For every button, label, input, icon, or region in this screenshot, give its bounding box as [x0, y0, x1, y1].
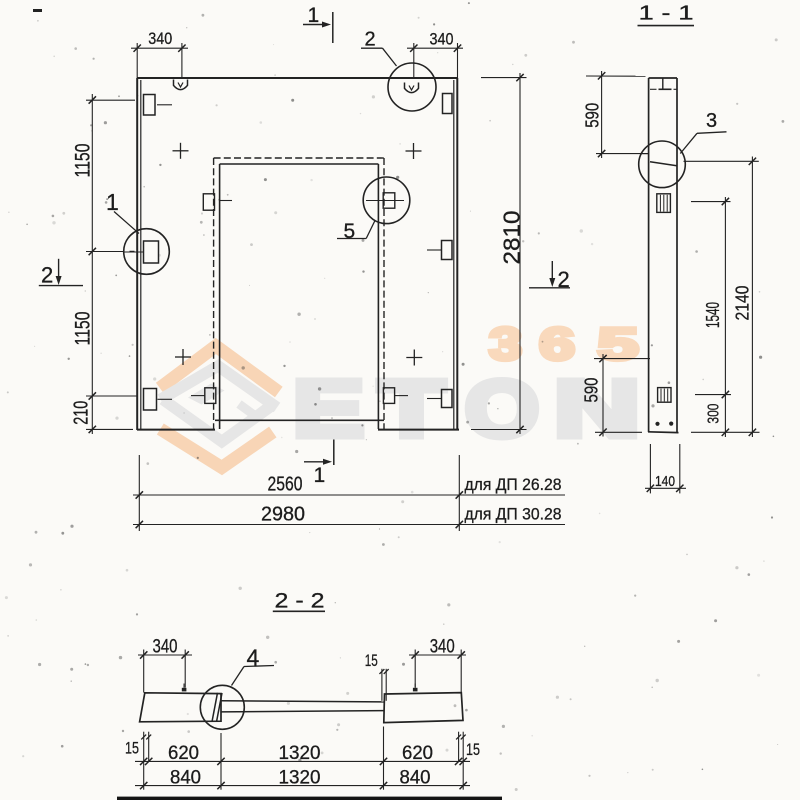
svg-text:1: 1 [106, 189, 119, 215]
svg-text:1: 1 [308, 4, 320, 27]
svg-text:590: 590 [583, 103, 603, 128]
svg-text:340: 340 [430, 30, 454, 49]
svg-text:1150: 1150 [72, 312, 95, 346]
svg-text:O: O [465, 364, 539, 453]
svg-text:3: 3 [706, 110, 717, 132]
svg-text:620: 620 [168, 743, 199, 764]
svg-text:1: 1 [314, 464, 326, 487]
svg-text:1320: 1320 [279, 743, 321, 764]
svg-text:15: 15 [125, 739, 139, 758]
svg-text:2980: 2980 [261, 504, 305, 526]
svg-text:620: 620 [402, 743, 433, 764]
svg-text:E: E [293, 364, 364, 453]
svg-text:300: 300 [705, 404, 722, 424]
svg-text:15: 15 [365, 651, 378, 670]
svg-text:840: 840 [170, 767, 201, 788]
svg-text:2: 2 [41, 263, 53, 288]
svg-text:210: 210 [71, 401, 93, 425]
svg-text:340: 340 [153, 637, 178, 658]
svg-text:N: N [554, 364, 640, 453]
svg-text:1320: 1320 [279, 767, 321, 788]
svg-text:15: 15 [466, 740, 480, 759]
svg-text:5: 5 [344, 220, 356, 243]
svg-text:1540: 1540 [703, 302, 723, 328]
svg-text:для ДП 26.28: для ДП 26.28 [465, 476, 562, 494]
svg-text:T: T [379, 364, 445, 453]
svg-text:1 - 1: 1 - 1 [639, 3, 694, 25]
svg-text:840: 840 [400, 767, 431, 788]
svg-text:2560: 2560 [268, 474, 303, 496]
svg-text:340: 340 [430, 637, 455, 658]
svg-text:590: 590 [581, 378, 601, 403]
svg-text:2 - 2: 2 - 2 [275, 590, 325, 613]
svg-text:3: 3 [489, 319, 522, 370]
svg-text:2140: 2140 [733, 286, 753, 321]
svg-text:5: 5 [598, 319, 639, 370]
svg-text:340: 340 [148, 29, 172, 48]
svg-text:2810: 2810 [498, 211, 524, 265]
svg-text:6: 6 [539, 319, 575, 370]
svg-text:2: 2 [365, 29, 376, 51]
svg-text:для ДП 30.28: для ДП 30.28 [465, 506, 562, 524]
svg-text:140: 140 [655, 473, 675, 490]
svg-text:1150: 1150 [72, 144, 95, 178]
